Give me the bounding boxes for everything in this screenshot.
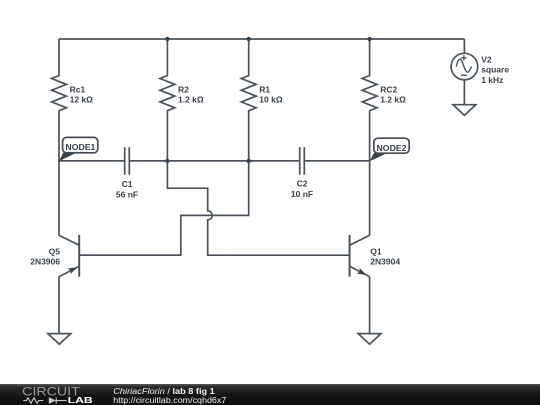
svg-text:56 nF: 56 nF bbox=[116, 190, 138, 200]
svg-text:LAB: LAB bbox=[68, 395, 93, 405]
svg-text:NODE1: NODE1 bbox=[65, 142, 95, 152]
svg-text:10 nF: 10 nF bbox=[291, 189, 313, 199]
svg-text:1.2 kΩ: 1.2 kΩ bbox=[178, 95, 204, 105]
svg-text:2N3904: 2N3904 bbox=[370, 257, 400, 267]
svg-text:Q1: Q1 bbox=[370, 247, 382, 257]
svg-text:10 kΩ: 10 kΩ bbox=[259, 95, 283, 105]
svg-text:2N3906: 2N3906 bbox=[30, 257, 60, 267]
svg-text:RC2: RC2 bbox=[380, 84, 397, 94]
svg-text:R1: R1 bbox=[259, 84, 270, 94]
svg-text:NODE2: NODE2 bbox=[377, 143, 407, 153]
svg-text:http://circuitlab.com/cqhd6x7: http://circuitlab.com/cqhd6x7 bbox=[113, 395, 226, 405]
svg-text:12 kΩ: 12 kΩ bbox=[70, 95, 94, 105]
svg-text:1 kHz: 1 kHz bbox=[481, 75, 503, 85]
svg-text:Rc1: Rc1 bbox=[70, 84, 86, 94]
svg-text:V2: V2 bbox=[481, 54, 492, 64]
svg-text:Q5: Q5 bbox=[49, 247, 61, 257]
svg-text:C1: C1 bbox=[122, 179, 133, 189]
svg-text:square: square bbox=[481, 65, 509, 75]
svg-text:C2: C2 bbox=[297, 179, 308, 189]
svg-text:1.2 kΩ: 1.2 kΩ bbox=[380, 95, 406, 105]
svg-text:R2: R2 bbox=[178, 84, 189, 94]
